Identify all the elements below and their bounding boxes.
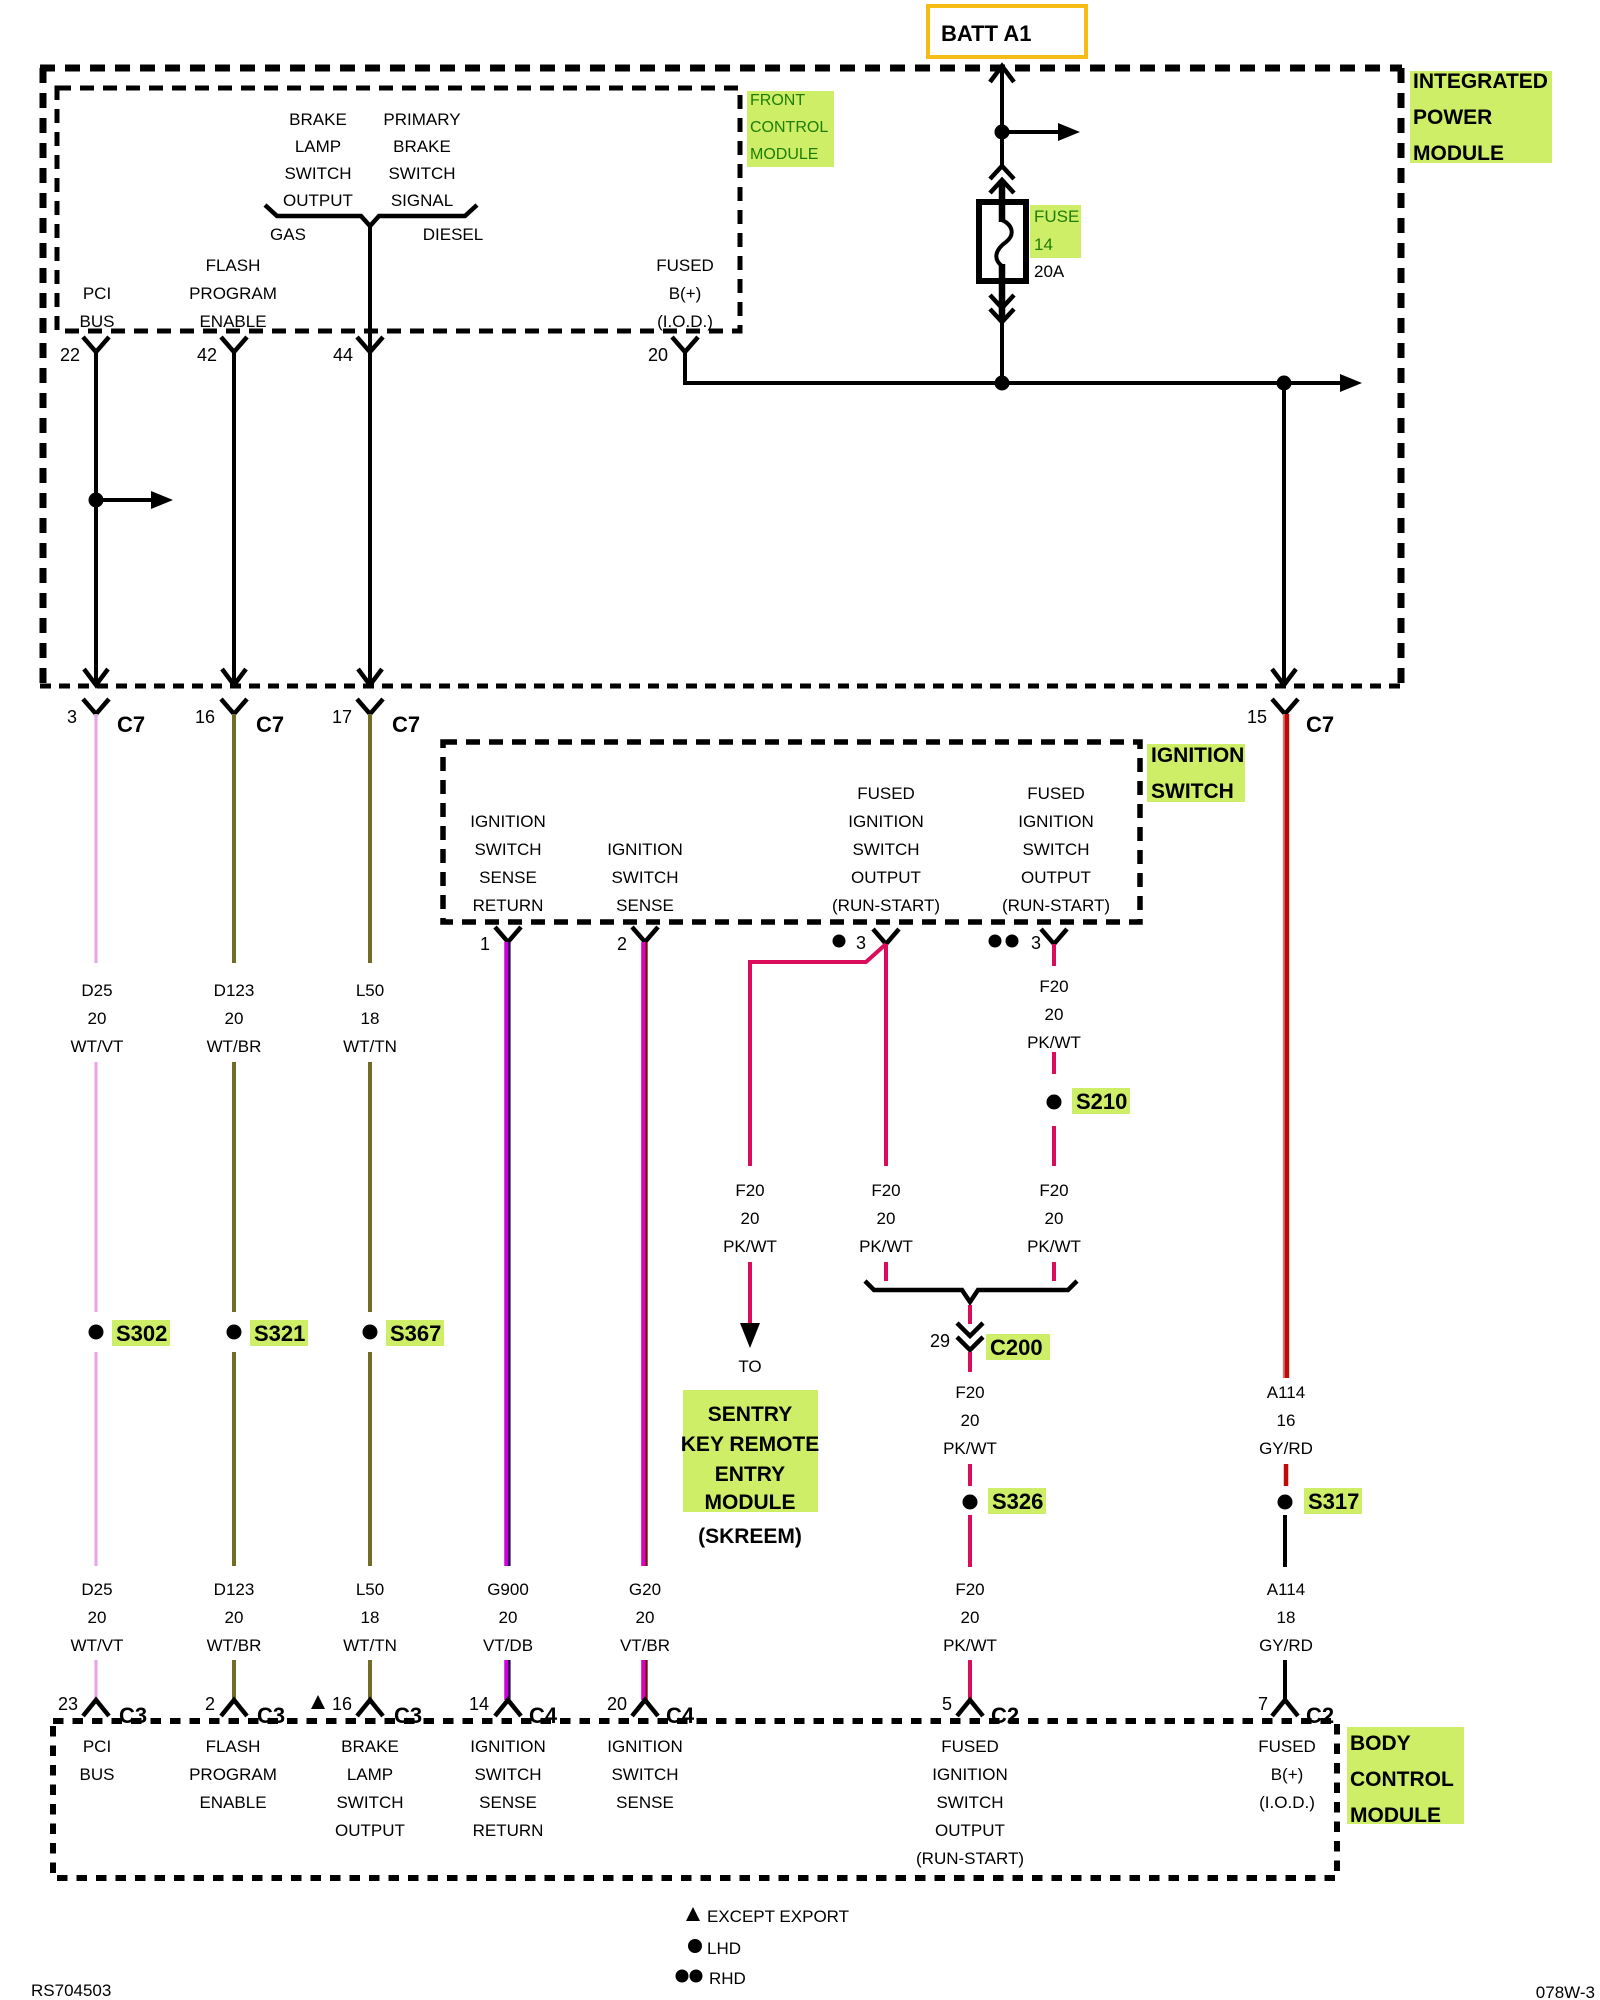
svg-text:IGNITION: IGNITION xyxy=(470,1737,546,1756)
svg-text:GY/RD: GY/RD xyxy=(1259,1439,1313,1458)
svg-text:RHD: RHD xyxy=(709,1969,746,1988)
splice S302 xyxy=(89,1325,104,1340)
svg-text:CONTROL: CONTROL xyxy=(1350,1768,1454,1791)
arrow to other battery circuits xyxy=(1002,130,1060,134)
svg-text:F20: F20 xyxy=(1039,977,1068,996)
wire F20 dashed above S326 xyxy=(968,1464,972,1486)
svg-text:(SKREEM): (SKREEM) xyxy=(698,1525,802,1548)
svg-text:SWITCH: SWITCH xyxy=(611,868,678,887)
svg-text:2: 2 xyxy=(205,1694,215,1714)
svg-text:PK/WT: PK/WT xyxy=(943,1439,997,1458)
svg-text:MODULE: MODULE xyxy=(1413,142,1504,165)
svg-text:C3: C3 xyxy=(257,1703,285,1728)
svg-text:PRIMARY: PRIMARY xyxy=(383,110,460,129)
connector C3 pin 16 (except export) xyxy=(311,1695,325,1709)
svg-text:22: 22 xyxy=(60,345,80,365)
svg-text:F20: F20 xyxy=(735,1181,764,1200)
splice S326 xyxy=(963,1495,978,1510)
wire F20 from ignition pin 3 RHD xyxy=(1052,944,1056,966)
svg-text:C4: C4 xyxy=(529,1703,558,1728)
svg-text:MODULE: MODULE xyxy=(705,1491,796,1514)
svg-text:BUS: BUS xyxy=(80,312,115,331)
svg-text:C200: C200 xyxy=(990,1335,1043,1360)
svg-text:ENABLE: ENABLE xyxy=(199,312,266,331)
svg-text:MODULE: MODULE xyxy=(750,146,818,163)
svg-text:3: 3 xyxy=(1031,933,1041,953)
svg-text:C2: C2 xyxy=(991,1703,1019,1728)
svg-text:WT/BR: WT/BR xyxy=(207,1037,262,1056)
svg-text:A114: A114 xyxy=(1267,1383,1305,1402)
svg-text:L50: L50 xyxy=(356,981,384,1000)
svg-text:S302: S302 xyxy=(116,1321,167,1346)
svg-text:3: 3 xyxy=(67,707,77,727)
ignition switch box (dashed) xyxy=(443,742,1140,922)
svg-text:20: 20 xyxy=(877,1209,896,1228)
svg-text:3: 3 xyxy=(856,933,866,953)
svg-text:WT/TN: WT/TN xyxy=(343,1636,397,1655)
svg-text:SWITCH: SWITCH xyxy=(474,840,541,859)
svg-text:OUTPUT: OUTPUT xyxy=(335,1821,405,1840)
svg-text:20: 20 xyxy=(961,1608,980,1627)
svg-text:SWITCH: SWITCH xyxy=(474,1765,541,1784)
svg-text:MODULE: MODULE xyxy=(1350,1804,1441,1827)
svg-text:18: 18 xyxy=(361,1009,380,1028)
svg-text:PK/WT: PK/WT xyxy=(723,1237,777,1256)
wire fuse to bus junction xyxy=(1000,318,1004,383)
svg-text:BUS: BUS xyxy=(80,1765,115,1784)
svg-text:SENSE: SENSE xyxy=(479,1793,537,1812)
wire into fuse xyxy=(999,180,1006,222)
wire D123 lower segment xyxy=(232,1352,236,1566)
svg-text:TO: TO xyxy=(738,1357,761,1376)
svg-text:SWITCH: SWITCH xyxy=(388,164,455,183)
svg-text:D25: D25 xyxy=(81,1580,112,1599)
svg-text:FUSED: FUSED xyxy=(857,784,915,803)
svg-text:PK/WT: PK/WT xyxy=(1027,1237,1081,1256)
wire L50 to BCM xyxy=(368,1660,372,1700)
svg-text:078W-3: 078W-3 xyxy=(1536,1983,1595,2000)
wire D25 to BCM xyxy=(94,1660,98,1700)
svg-text:16: 16 xyxy=(1277,1411,1296,1430)
svg-text:14: 14 xyxy=(1034,235,1053,254)
svg-text:C2: C2 xyxy=(1306,1703,1334,1728)
wire D25 lower segment xyxy=(94,1352,98,1566)
svg-text:OUTPUT: OUTPUT xyxy=(851,868,921,887)
svg-text:44: 44 xyxy=(333,345,353,365)
wire A114 16 GY/RD from C7-15 xyxy=(1283,714,1285,1378)
svg-text:S367: S367 xyxy=(390,1321,441,1346)
svg-text:SWITCH: SWITCH xyxy=(284,164,351,183)
svg-text:17: 17 xyxy=(332,707,352,727)
svg-text:FRONT: FRONT xyxy=(750,92,805,109)
wire F20 to BCM xyxy=(968,1660,972,1700)
svg-text:SWITCH: SWITCH xyxy=(936,1793,1003,1812)
svg-text:C7: C7 xyxy=(1306,712,1334,737)
svg-text:PK/WT: PK/WT xyxy=(943,1636,997,1655)
svg-text:GY/RD: GY/RD xyxy=(1259,1636,1313,1655)
svg-text:ENTRY: ENTRY xyxy=(715,1463,785,1486)
wire pin42 to C7-16 (flash program enable) xyxy=(232,352,236,684)
wire F20 branch to SKREEM (from ignition pin 3) xyxy=(750,944,886,1166)
svg-text:SENSE: SENSE xyxy=(616,1793,674,1812)
svg-text:G20: G20 xyxy=(629,1580,661,1599)
wire F20 dashed segment below S210 xyxy=(1052,1126,1056,1166)
junction node on PCI bus wire xyxy=(89,493,104,508)
svg-text:OUTPUT: OUTPUT xyxy=(935,1821,1005,1840)
splice S321 xyxy=(227,1325,242,1340)
fused B(+) horizontal bus xyxy=(685,381,1340,385)
svg-text:B(+): B(+) xyxy=(1271,1765,1304,1784)
svg-text:G900: G900 xyxy=(487,1580,529,1599)
svg-text:18: 18 xyxy=(361,1608,380,1627)
wire F20 stub to brace xyxy=(884,1262,888,1281)
svg-text:IGNITION: IGNITION xyxy=(932,1765,1008,1784)
svg-text:SENSE: SENSE xyxy=(616,896,674,915)
svg-text:OUTPUT: OUTPUT xyxy=(283,191,353,210)
wire L50 middle segment xyxy=(368,1062,372,1312)
label BODY CONTROL MODULE xyxy=(1347,1727,1464,1824)
ignition switch pin 3 (LHD) xyxy=(833,935,846,948)
svg-text:PK/WT: PK/WT xyxy=(1027,1033,1081,1052)
svg-text:14: 14 xyxy=(469,1694,489,1714)
svg-text:SWITCH: SWITCH xyxy=(1022,840,1089,859)
svg-text:20: 20 xyxy=(225,1009,244,1028)
wire D25 20 WT/VT upper segment xyxy=(94,714,98,963)
svg-text:16: 16 xyxy=(195,707,215,727)
wire G20 20 VT/BR xyxy=(641,942,645,1566)
svg-text:42: 42 xyxy=(197,345,217,365)
svg-text:IGNITION: IGNITION xyxy=(470,812,546,831)
svg-text:A114: A114 xyxy=(1267,1580,1305,1599)
svg-text:PCI: PCI xyxy=(83,284,111,303)
svg-text:WT/BR: WT/BR xyxy=(207,1636,262,1655)
svg-text:SIGNAL: SIGNAL xyxy=(391,191,453,210)
wire D123 middle segment xyxy=(232,1062,236,1312)
svg-text:FUSE: FUSE xyxy=(1034,207,1079,226)
inline connector chevrons above fuse xyxy=(990,166,1014,179)
svg-text:20: 20 xyxy=(1045,1005,1064,1024)
svg-text:7: 7 xyxy=(1258,1694,1268,1714)
svg-text:LAMP: LAMP xyxy=(295,137,341,156)
svg-text:S321: S321 xyxy=(254,1321,305,1346)
arrow to SKREEM xyxy=(740,1323,760,1348)
svg-text:PK/WT: PK/WT xyxy=(859,1237,913,1256)
svg-text:20: 20 xyxy=(1045,1209,1064,1228)
svg-text:POWER: POWER xyxy=(1413,106,1492,129)
svg-text:RETURN: RETURN xyxy=(473,1821,544,1840)
body control module box (dashed) xyxy=(53,1721,1337,1878)
wire F20 below S326 xyxy=(968,1515,972,1567)
svg-text:SWITCH: SWITCH xyxy=(611,1765,678,1784)
svg-text:IGNITION: IGNITION xyxy=(1151,744,1244,767)
svg-text:WT/TN: WT/TN xyxy=(343,1037,397,1056)
wire battery feed from BATT A1 xyxy=(990,66,1014,82)
battery feed label box BATT A1 xyxy=(928,6,1086,57)
svg-text:5: 5 xyxy=(942,1694,952,1714)
svg-text:PROGRAM: PROGRAM xyxy=(189,284,277,303)
svg-text:LAMP: LAMP xyxy=(347,1765,393,1784)
wire D25 middle segment xyxy=(94,1062,98,1312)
label INTEGRATED POWER MODULE xyxy=(1410,71,1552,163)
svg-text:D123: D123 xyxy=(214,1580,255,1599)
brace joining gas/diesel brake switch signals xyxy=(265,205,477,226)
svg-text:15: 15 xyxy=(1247,707,1267,727)
svg-text:SENSE: SENSE xyxy=(479,868,537,887)
wire D123 to BCM xyxy=(232,1660,236,1700)
svg-text:IGNITION: IGNITION xyxy=(1018,812,1094,831)
svg-text:(I.O.D.): (I.O.D.) xyxy=(657,312,713,331)
svg-text:(RUN-START): (RUN-START) xyxy=(916,1849,1024,1868)
svg-text:SWITCH: SWITCH xyxy=(336,1793,403,1812)
splice S367 xyxy=(363,1325,378,1340)
svg-text:F20: F20 xyxy=(1039,1181,1068,1200)
svg-text:(RUN-START): (RUN-START) xyxy=(1002,896,1110,915)
label IGNITION SWITCH xyxy=(1147,744,1245,802)
junction battery feed xyxy=(995,125,1010,140)
wire F20 below C200 xyxy=(968,1352,972,1372)
svg-text:KEY REMOTE: KEY REMOTE xyxy=(681,1433,819,1456)
svg-text:FLASH: FLASH xyxy=(206,256,261,275)
svg-text:BRAKE: BRAKE xyxy=(289,110,347,129)
svg-text:RS704503: RS704503 xyxy=(31,1981,111,2000)
svg-text:20: 20 xyxy=(499,1608,518,1627)
svg-text:LHD: LHD xyxy=(707,1939,741,1958)
svg-text:BODY: BODY xyxy=(1350,1732,1411,1755)
svg-text:1: 1 xyxy=(480,934,490,954)
svg-text:GAS: GAS xyxy=(270,225,306,244)
wire A114 to BCM xyxy=(1283,1660,1287,1700)
svg-text:20: 20 xyxy=(648,345,668,365)
svg-text:ENABLE: ENABLE xyxy=(199,1793,266,1812)
svg-text:PCI: PCI xyxy=(83,1737,111,1756)
svg-text:F20: F20 xyxy=(955,1383,984,1402)
wire pin20 fused B(+) to bus xyxy=(683,352,687,385)
svg-text:20: 20 xyxy=(88,1608,107,1627)
svg-text:CONTROL: CONTROL xyxy=(750,119,828,136)
wire bus to C7-15 xyxy=(1282,383,1286,684)
junction bus to C7-15 xyxy=(1277,376,1292,391)
svg-text:2: 2 xyxy=(617,934,627,954)
svg-text:BRAKE: BRAKE xyxy=(393,137,451,156)
wire A114 dashed above S317 xyxy=(1284,1464,1289,1486)
svg-text:SWITCH: SWITCH xyxy=(852,840,919,859)
wire G900 to BCM xyxy=(504,1660,509,1700)
svg-text:20: 20 xyxy=(636,1608,655,1627)
splice S210 xyxy=(1047,1095,1062,1110)
inline connector chevrons below fuse xyxy=(990,295,1014,308)
splice S317 xyxy=(1278,1495,1293,1510)
svg-text:23: 23 xyxy=(58,1694,78,1714)
svg-text:C4: C4 xyxy=(666,1703,695,1728)
wire pin22 to C7-3 (PCI bus) xyxy=(94,352,98,684)
svg-text:PROGRAM: PROGRAM xyxy=(189,1765,277,1784)
front control module box (dashed) xyxy=(57,88,740,331)
svg-text:SENTRY: SENTRY xyxy=(708,1403,792,1426)
legend RHD xyxy=(676,1970,689,1983)
svg-text:FLASH: FLASH xyxy=(206,1737,261,1756)
svg-text:BRAKE: BRAKE xyxy=(341,1737,399,1756)
svg-text:18: 18 xyxy=(1277,1608,1296,1627)
wire L50 lower segment xyxy=(368,1352,372,1566)
label FUSE 14 20A xyxy=(1030,205,1081,258)
svg-text:C3: C3 xyxy=(119,1703,147,1728)
label FRONT CONTROL MODULE xyxy=(747,91,834,167)
brace merging F20 wires into C200 xyxy=(865,1281,1077,1302)
svg-text:C7: C7 xyxy=(392,712,420,737)
wire A114 below S317 (18 gauge) xyxy=(1283,1515,1287,1567)
svg-text:OUTPUT: OUTPUT xyxy=(1021,868,1091,887)
integrated power module box (dashed) xyxy=(40,65,1402,72)
wire F20 to arrow xyxy=(748,1262,752,1325)
svg-text:WT/VT: WT/VT xyxy=(71,1636,124,1655)
svg-text:WT/VT: WT/VT xyxy=(71,1037,124,1056)
label SENTRY KEY REMOTE ENTRY MODULE xyxy=(683,1390,818,1512)
svg-text:(RUN-START): (RUN-START) xyxy=(832,896,940,915)
ignition switch pin 3 (RHD) xyxy=(989,935,1002,948)
svg-text:SWITCH: SWITCH xyxy=(1151,780,1234,803)
svg-text:S317: S317 xyxy=(1308,1489,1359,1514)
svg-text:D123: D123 xyxy=(214,981,255,1000)
svg-text:C7: C7 xyxy=(256,712,284,737)
wire G900 20 VT/DB xyxy=(504,942,509,1566)
legend except export xyxy=(686,1907,700,1921)
svg-text:20: 20 xyxy=(961,1411,980,1430)
wire D123 20 WT/BR upper segment xyxy=(232,714,236,963)
svg-text:RETURN: RETURN xyxy=(473,896,544,915)
wire out of fuse xyxy=(999,264,1006,322)
svg-text:16: 16 xyxy=(332,1694,352,1714)
svg-text:VT/DB: VT/DB xyxy=(483,1636,533,1655)
svg-text:VT/BR: VT/BR xyxy=(620,1636,670,1655)
wire pin44 to C7-17 (brake lamp switch output) xyxy=(368,226,372,684)
svg-text:EXCEPT EXPORT: EXCEPT EXPORT xyxy=(707,1907,849,1926)
svg-text:DIESEL: DIESEL xyxy=(423,225,483,244)
wire G20 to BCM xyxy=(641,1660,645,1700)
arrow to other PCI bus circuits xyxy=(96,498,153,502)
svg-text:C3: C3 xyxy=(394,1703,422,1728)
wire F20 brace to C200 xyxy=(968,1305,972,1324)
svg-text:IGNITION: IGNITION xyxy=(848,812,924,831)
svg-text:IGNITION: IGNITION xyxy=(607,1737,683,1756)
svg-text:20: 20 xyxy=(88,1009,107,1028)
junction fuse output to bus xyxy=(995,376,1010,391)
svg-text:D25: D25 xyxy=(81,981,112,1000)
svg-text:BATT A1: BATT A1 xyxy=(941,21,1031,46)
svg-text:FUSED: FUSED xyxy=(941,1737,999,1756)
wire F20 from ignition pin 3 down xyxy=(884,944,888,1166)
svg-text:F20: F20 xyxy=(955,1580,984,1599)
svg-text:20A: 20A xyxy=(1034,262,1065,281)
svg-text:B(+): B(+) xyxy=(669,284,702,303)
wire L50 18 WT/TN upper segment xyxy=(368,714,372,963)
svg-text:L50: L50 xyxy=(356,1580,384,1599)
svg-text:FUSED: FUSED xyxy=(1027,784,1085,803)
wire F20 dashed segment above S210 xyxy=(1052,1052,1056,1074)
legend LHD xyxy=(688,1939,702,1953)
svg-text:INTEGRATED: INTEGRATED xyxy=(1413,70,1548,93)
svg-text:F20: F20 xyxy=(871,1181,900,1200)
svg-text:20: 20 xyxy=(607,1694,627,1714)
wire F20 stub to brace (RHD) xyxy=(1052,1262,1056,1281)
svg-text:IGNITION: IGNITION xyxy=(607,840,683,859)
svg-text:FUSED: FUSED xyxy=(1258,1737,1316,1756)
svg-text:S210: S210 xyxy=(1076,1089,1127,1114)
svg-text:29: 29 xyxy=(930,1331,950,1351)
fuse 14 20A xyxy=(979,202,1026,281)
svg-text:20: 20 xyxy=(225,1608,244,1627)
svg-text:S326: S326 xyxy=(992,1489,1043,1514)
svg-text:C7: C7 xyxy=(117,712,145,737)
svg-text:FUSED: FUSED xyxy=(656,256,714,275)
svg-text:(I.O.D.): (I.O.D.) xyxy=(1259,1793,1315,1812)
svg-text:20: 20 xyxy=(741,1209,760,1228)
